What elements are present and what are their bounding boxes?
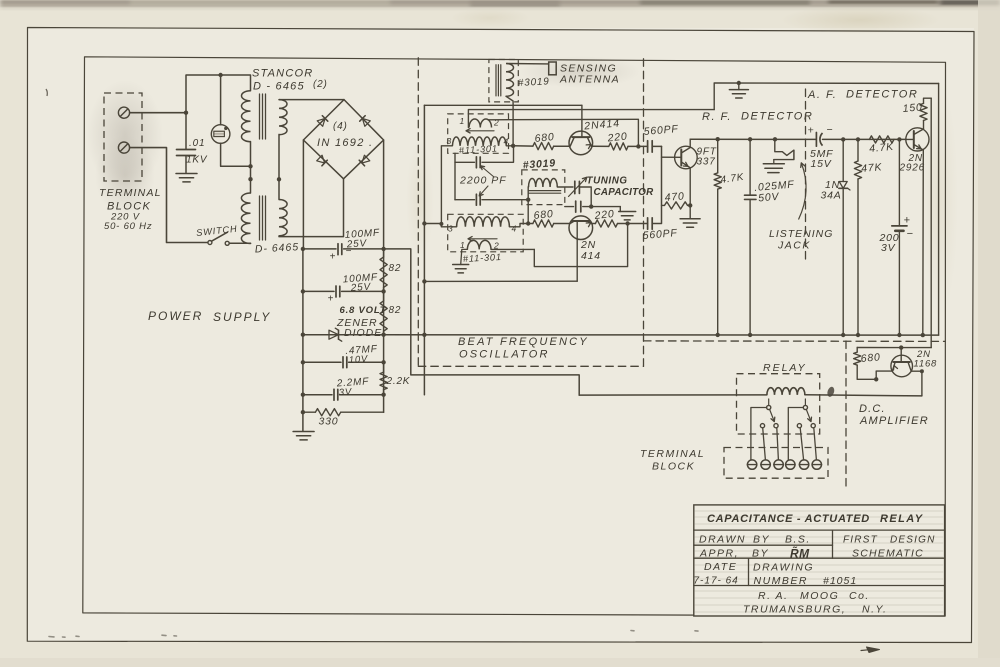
- output terminal 5: [799, 460, 808, 469]
- wire switch to T2 primary: [229, 242, 250, 244]
- svg-text:6.8 VOLT: 6.8 VOLT: [340, 305, 387, 316]
- AF rail after cap: [823, 138, 907, 140]
- capacitor .01 1KV plates: [177, 149, 196, 151]
- battery 200 3V wire top: [898, 139, 900, 226]
- transistor 2N414 second emitter arrow: [586, 223, 591, 227]
- transistor 2N414 second emitter down: [576, 221, 578, 281]
- svg-text:#11-301: #11-301: [459, 143, 499, 155]
- relay common contact 1: [767, 405, 771, 409]
- coupling coil winding: [529, 178, 558, 187]
- svg-text:D.C.: D.C.: [859, 403, 886, 415]
- svg-text:BLOCK: BLOCK: [652, 461, 695, 473]
- transistor 2N1168: [891, 355, 913, 377]
- resistor 470: [665, 202, 688, 209]
- switch: [208, 241, 212, 245]
- DC emitter return wire: [857, 371, 892, 379]
- svg-text:SUPPLY: SUPPLY: [213, 310, 271, 324]
- relay common 1 wire to terminal: [751, 408, 767, 460]
- junction rail .025MF: [748, 137, 752, 141]
- output terminal 1: [747, 460, 756, 469]
- svg-text:DRAWING: DRAWING: [753, 562, 814, 574]
- junction primary chain fuse: [248, 164, 252, 168]
- junction rail-emitter bottom: [921, 333, 925, 337]
- wire BFO bus to coil2: [424, 223, 441, 225]
- junction cap1 right: [381, 247, 385, 251]
- coil1 feedback winding: [469, 119, 491, 128]
- svg-text:1KV: 1KV: [186, 155, 208, 166]
- coil2 phase arrow: [470, 238, 497, 240]
- battery wire bottom: [898, 231, 900, 335]
- junction rail-1N34A bottom: [841, 333, 845, 337]
- junction rail-4.7K bottom: [716, 333, 720, 337]
- coil2 main winding: [457, 217, 510, 227]
- svg-text:82: 82: [389, 305, 402, 316]
- capacitor 100MF 25V first wire: [303, 248, 336, 250]
- svg-text:680: 680: [533, 208, 554, 222]
- svg-text:BY: BY: [752, 548, 769, 560]
- resistor 4.7K RF: [717, 139, 719, 173]
- relay contact wires: [763, 428, 766, 460]
- capacitor 2.2MF 3V plates: [333, 389, 335, 400]
- screw terminal upper: [118, 107, 129, 118]
- transistor 2N414 first: [569, 131, 593, 155]
- junction cap2 right: [381, 289, 385, 293]
- capacitor .47MF 10V plates: [342, 357, 344, 368]
- junction BFO bus emitter return: [422, 279, 426, 283]
- junction 330 line left: [301, 410, 305, 414]
- svg-text:#3019: #3019: [518, 76, 550, 89]
- svg-text:2: 2: [493, 118, 500, 128]
- svg-text:SCHEMATIC: SCHEMATIC: [852, 548, 924, 560]
- resistor 220 oscillator bottom: [595, 220, 617, 227]
- junction cap1 left: [301, 247, 305, 251]
- DC collector wire: [911, 371, 922, 396]
- node top rail fuse tap: [218, 73, 222, 77]
- svg-text:50V: 50V: [758, 191, 780, 205]
- junction coupling-capB node: [526, 198, 530, 202]
- transistor 2N1168 emitter arrow: [894, 366, 898, 371]
- fixed padder capacitor wire: [565, 206, 574, 208]
- junction secondary chain: [277, 177, 281, 181]
- RF collector wire to rail: [689, 139, 691, 147]
- transistor 2N414 first base lead: [581, 105, 583, 137]
- transistor 2N414 first emitter arrow: [586, 145, 591, 149]
- svg-text:A. F.: A. F.: [807, 89, 837, 101]
- wire 220 top line: [593, 145, 609, 147]
- coil1 phase arrow: [468, 130, 494, 132]
- resistor 150 and collector wire: [923, 121, 925, 130]
- junction BFO bus coil line: [422, 221, 426, 225]
- capacitor 560PF top: [647, 141, 649, 152]
- capacitor 2200PF upper wire: [455, 153, 475, 162]
- junction rail battery: [897, 137, 901, 141]
- svg-text:2200 PF: 2200 PF: [459, 175, 507, 187]
- junction antenna-tank node: [511, 144, 515, 148]
- fixed padder capacitor plates: [575, 201, 577, 212]
- svg-text:3V: 3V: [338, 387, 353, 399]
- transformer T1 primary winding: [242, 91, 251, 142]
- coupling coil right lead: [557, 186, 573, 188]
- capacitor 560PF bottom: [647, 218, 649, 229]
- junction rail 1N34A: [841, 137, 845, 141]
- svg-text:+: +: [808, 125, 815, 137]
- antenna transformer core: [495, 65, 497, 96]
- junction coupling at 680 line: [526, 221, 530, 225]
- resistor 82 lower: [383, 291, 385, 301]
- coil1 main winding: [452, 137, 506, 146]
- svg-text:10V: 10V: [348, 354, 369, 366]
- wire line U collector feed: [424, 104, 582, 106]
- svg-text:CAPACITOR: CAPACITOR: [594, 187, 655, 198]
- junction padder node: [589, 204, 593, 208]
- coil2 terminal3 wire: [441, 226, 456, 228]
- svg-text:OSCILLATOR: OSCILLATOR: [459, 349, 550, 361]
- relay armature arrow 1: [770, 409, 774, 420]
- svg-text:7-17- 64: 7-17- 64: [694, 576, 739, 587]
- right rail: [383, 249, 385, 412]
- relay common contact 2: [803, 405, 807, 409]
- BFO dashed box right edge: [643, 59, 645, 367]
- capacitor 2200PF upper plates: [475, 157, 477, 168]
- junction coil2 left: [439, 222, 443, 226]
- wire 2N2926 emitter down: [922, 150, 925, 335]
- oscillator coil 1 dashed box: [448, 114, 509, 153]
- ink smudge: [826, 386, 835, 398]
- bridge diode D4: [362, 155, 370, 163]
- svg-text:470: 470: [664, 190, 685, 204]
- output terminal 2: [761, 460, 770, 469]
- transistor 9FT337: [675, 146, 698, 169]
- transformer T1 core: [259, 94, 261, 139]
- svg-text:−: −: [907, 228, 914, 240]
- junction ground tap AF rail: [737, 81, 741, 85]
- capacitor 2200PF lower plates: [475, 194, 477, 205]
- antenna coil bottom lead: [506, 96, 513, 145]
- svg-text:82: 82: [389, 263, 402, 274]
- transistor 2N2926 emitter arrow: [917, 145, 922, 149]
- wire osc2 feedback loop: [534, 224, 627, 267]
- svg-text:RELAY: RELAY: [880, 513, 924, 525]
- svg-text:220: 220: [593, 208, 615, 222]
- right bus outer: [938, 84, 940, 336]
- wire bridge left corner down: [302, 140, 304, 249]
- listening jack pointer arrow: [799, 164, 807, 220]
- wire terminal2 to switch: [130, 148, 208, 243]
- border frame inner: [83, 57, 946, 616]
- zener diode 6.8V symbol: [329, 330, 339, 339]
- capacitor 2200PF lower wire: [455, 199, 475, 201]
- bridge rectifier diamond: [303, 100, 383, 179]
- terminal block (mains) dashed box: [104, 93, 142, 181]
- ground listening jack: [763, 163, 784, 165]
- wire T1 secondary bottom to T2 secondary: [278, 134, 280, 199]
- bridge diode D3: [317, 155, 325, 163]
- capacitor 5MF 15V plates: [815, 133, 817, 147]
- output terminal block dashed box: [724, 448, 828, 479]
- junction BFO bus at rail: [422, 333, 426, 337]
- svg-text:DESIGN: DESIGN: [890, 535, 936, 546]
- resistor 47K: [857, 139, 859, 161]
- antenna lead: [507, 63, 549, 65]
- capacitor 100MF 25V first plates: [337, 244, 339, 255]
- bridge diode D2: [362, 118, 370, 126]
- screw terminal lower: [118, 142, 129, 153]
- svg-text:25V: 25V: [349, 282, 371, 294]
- junction DC emitter return: [874, 377, 878, 381]
- svg-text:DETECTOR: DETECTOR: [741, 111, 813, 123]
- listening jack: [775, 140, 794, 156]
- junction rail-.025 bottom: [748, 333, 752, 337]
- output terminal 4: [786, 460, 795, 469]
- ground below .01: [176, 173, 197, 175]
- wire B+ feed to oscillator area: [384, 249, 580, 395]
- svg-text:34A: 34A: [821, 190, 842, 202]
- sensing antenna plate: [549, 62, 557, 75]
- svg-text:4.7K: 4.7K: [869, 141, 895, 155]
- svg-text:BY: BY: [753, 534, 770, 546]
- junction rail 4.7K: [716, 137, 720, 141]
- svg-text:4: 4: [512, 224, 518, 234]
- wire 680 top line: [513, 145, 533, 147]
- relay contact circles: [760, 424, 764, 428]
- output terminal 3: [774, 460, 783, 469]
- resistor 220 oscillator top: [609, 143, 628, 150]
- transistor 2N1168 base lead: [900, 348, 902, 362]
- transistor 2N2926: [906, 128, 929, 151]
- svg-text:680: 680: [860, 351, 881, 365]
- transformer T2 primary winding: [241, 193, 250, 244]
- svg-text:#1051: #1051: [823, 575, 857, 587]
- coil1 terminal3 wire down: [441, 146, 452, 227]
- svg-text:TUNING: TUNING: [587, 176, 628, 187]
- left rail: [302, 249, 304, 431]
- wire collector top path: [488, 119, 638, 146]
- capacitor .47MF 10V wire: [303, 361, 341, 363]
- capacitor 100MF 25V second wire: [303, 290, 334, 292]
- svg-text:1: 1: [460, 116, 466, 126]
- wire line L feedback to detector: [468, 110, 714, 128]
- svg-text:Co.: Co.: [849, 590, 870, 602]
- svg-text:N.Y.: N.Y.: [862, 604, 887, 616]
- junction 2.2MF line left: [301, 393, 305, 397]
- svg-text:D - 6465: D - 6465: [253, 81, 305, 93]
- coil2 feedback winding: [467, 240, 491, 249]
- svg-text:R̃M: R̃M: [790, 546, 810, 561]
- antenna transformer winding: [506, 64, 514, 97]
- junction zener line right: [381, 333, 385, 337]
- svg-text:220: 220: [606, 130, 628, 144]
- coil1 terminal4 wire: [506, 145, 514, 147]
- junction .47 line left: [301, 360, 305, 364]
- wire T2 primary bottom: [250, 242, 252, 244]
- svg-text:D- 6465: D- 6465: [255, 241, 300, 255]
- svg-text:+: +: [904, 215, 911, 227]
- RF output rail: [690, 138, 816, 140]
- junction rail jack: [773, 137, 777, 141]
- BFO dashed box bottom edge: [418, 365, 643, 367]
- junction osc1 output node: [636, 144, 640, 148]
- junction DC base node: [899, 345, 903, 349]
- svg-text:TERMINAL: TERMINAL: [99, 187, 162, 199]
- capacitor .01 1KV leads: [185, 113, 187, 149]
- zener diode 6.8V wire: [303, 334, 329, 336]
- svg-text:3V: 3V: [881, 242, 896, 254]
- relay drive line: [579, 394, 767, 396]
- neon lamp: [211, 125, 230, 144]
- svg-text:2926: 2926: [899, 163, 925, 174]
- junction rail-battery bottom: [897, 333, 901, 337]
- svg-text:NUMBER: NUMBER: [754, 575, 809, 587]
- ground on AF top rail: [738, 83, 740, 90]
- capacitor 2.2MF 3V wire: [303, 394, 332, 396]
- title block frame: [694, 505, 945, 616]
- arrow to lower 2200PF: [480, 186, 488, 195]
- right bus inner: [930, 98, 932, 347]
- neon lamp leads: [220, 75, 222, 125]
- svg-text:DETECTOR: DETECTOR: [846, 89, 918, 101]
- capacitor .025MF 50V: [749, 139, 751, 195]
- svg-text:IN 1692 .: IN 1692 .: [317, 137, 373, 149]
- svg-text:330: 330: [319, 416, 339, 428]
- resistor 680 DC: [856, 348, 858, 353]
- DC amp dashed boundary: [644, 340, 946, 343]
- resistor 330: [303, 411, 316, 413]
- coil2 feedback right lead: [491, 248, 534, 250]
- relay armature arrow 2: [806, 409, 810, 420]
- resistor 680 oscillator bottom: [533, 220, 554, 227]
- resistor 82 upper: [383, 249, 385, 257]
- svg-text:+: +: [328, 294, 335, 305]
- svg-text:DIODE: DIODE: [344, 327, 382, 339]
- svg-text:(2): (2): [313, 79, 328, 90]
- tuning capacitor plates: [574, 181, 576, 193]
- svg-text:50- 60 Hz: 50- 60 Hz: [104, 221, 152, 232]
- svg-text:150: 150: [902, 101, 923, 115]
- svg-text:DRAWN: DRAWN: [699, 534, 746, 546]
- relay coil: [767, 388, 805, 395]
- DC amp top line: [857, 347, 931, 349]
- ground power supply: [293, 431, 314, 433]
- svg-text:−: −: [827, 124, 834, 136]
- svg-text:4: 4: [504, 137, 510, 147]
- BFO dashed box left edge: [417, 58, 419, 367]
- AF boundary dashed line: [805, 89, 807, 260]
- svg-text:DATE: DATE: [704, 561, 737, 573]
- svg-text:3: 3: [447, 136, 453, 146]
- lower supply rail: [303, 334, 939, 336]
- output terminal 6: [812, 460, 821, 469]
- transformer T1 secondary winding: [279, 100, 287, 135]
- wire terminal1 to node: [130, 112, 186, 114]
- svg-text:+: +: [330, 252, 337, 263]
- coupling coil core: [529, 190, 561, 192]
- svg-text:LISTENING: LISTENING: [769, 228, 833, 240]
- node junction at cap .01: [184, 111, 188, 115]
- relay common 2 wire to terminal: [788, 408, 803, 460]
- svg-text:STANCOR: STANCOR: [252, 68, 313, 80]
- svg-text:.01: .01: [189, 138, 205, 149]
- capacitor ladder left leg: [454, 162, 456, 199]
- junction DC collector: [920, 369, 924, 373]
- transformer T2 secondary winding: [279, 200, 287, 236]
- svg-text:#3019: #3019: [522, 157, 556, 171]
- RF emitter wire and ground: [689, 168, 691, 219]
- svg-text:47K: 47K: [861, 161, 883, 175]
- svg-text:MOOG: MOOG: [800, 590, 839, 602]
- diode 1N34A: [842, 139, 844, 181]
- svg-text:(4): (4): [333, 121, 348, 132]
- junction .47 line right: [381, 360, 385, 364]
- svg-text:TRUMANSBURG,: TRUMANSBURG,: [743, 604, 846, 616]
- svg-text:337: 337: [697, 157, 716, 168]
- coupling coil left lead: [527, 187, 529, 224]
- svg-text:FIRST: FIRST: [843, 535, 878, 546]
- ground coil2: [453, 264, 469, 266]
- junction cap2 left: [301, 289, 305, 293]
- svg-text:3: 3: [448, 224, 454, 234]
- bridge diode D1: [317, 118, 325, 126]
- svg-text:RELAY: RELAY: [763, 362, 807, 374]
- tuning capacitor arrow: [569, 178, 587, 197]
- junction zener line left: [301, 333, 305, 337]
- svg-text:POWER: POWER: [148, 309, 203, 323]
- wire bridge right corner down: [383, 140, 385, 249]
- wire node up and top rail to transformer: [186, 75, 251, 113]
- wire emitter return line: [424, 280, 577, 282]
- junction rail 47K: [856, 137, 860, 141]
- wire base stub: [662, 156, 682, 158]
- svg-text:1168: 1168: [914, 359, 938, 370]
- capacitor 100MF 25V second plates: [335, 286, 337, 297]
- wire 2N2926 base stub: [906, 138, 914, 140]
- wire T2 secondary bottom to bridge bottom: [279, 179, 344, 237]
- svg-text:680: 680: [534, 131, 555, 145]
- junction primary chain: [248, 177, 252, 181]
- wire T1 primary to T2 primary: [250, 142, 252, 194]
- wire detector step up: [714, 83, 938, 110]
- relay dashed box: [737, 374, 820, 434]
- svg-text:ANTENNA: ANTENNA: [559, 74, 620, 86]
- transistor 9FT337 emitter arrow: [683, 162, 688, 166]
- resistor 680 oscillator top: [533, 143, 554, 150]
- svg-text:25V: 25V: [345, 238, 367, 250]
- transformer T2 core: [259, 196, 261, 240]
- transistor 2N414 second: [569, 216, 593, 240]
- resistor 4.7K AF: [869, 136, 894, 143]
- svg-text:BEAT FREQUENCY: BEAT FREQUENCY: [458, 336, 589, 348]
- svg-text:1: 1: [460, 240, 466, 250]
- ground tuning network: [619, 207, 621, 212]
- wire 680 bottom line: [528, 223, 533, 225]
- sensing antenna coil dashed box: [489, 60, 518, 102]
- svg-text:TERMINAL: TERMINAL: [640, 448, 705, 460]
- stray arrow mark: [867, 647, 880, 653]
- wire T1 secondary top to bridge: [279, 99, 344, 101]
- arrow to upper 2200PF: [482, 167, 495, 178]
- resistor 2.2K: [383, 362, 385, 372]
- svg-text:B.S.: B.S.: [785, 534, 811, 546]
- wire 560PF to RF transistor base: [661, 146, 663, 223]
- svg-text:R. F.: R. F.: [702, 111, 732, 123]
- svg-text:CAPACITANCE - ACTUATED: CAPACITANCE - ACTUATED: [707, 513, 870, 525]
- main left vertical bus of BFO: [423, 105, 425, 394]
- coil2 terminal4 wire: [509, 224, 528, 227]
- wire 220 bottom line: [593, 223, 596, 225]
- svg-text:R. A.: R. A.: [758, 590, 788, 602]
- svg-text:2.2K: 2.2K: [386, 376, 411, 387]
- svg-text:AMPLIFIER: AMPLIFIER: [859, 415, 929, 427]
- junction 2.2MF line right: [381, 393, 385, 397]
